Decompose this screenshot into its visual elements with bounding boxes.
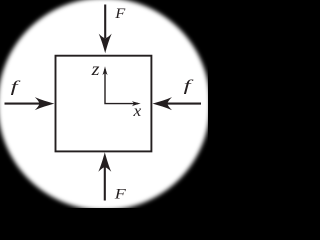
z axis arrowhead — [102, 66, 107, 75]
right force arrowhead — [152, 97, 172, 110]
square body — [56, 56, 152, 152]
svg-text:z: z — [91, 60, 100, 80]
left force arrow shaft — [5, 103, 43, 105]
top force arrow shaft — [104, 5, 106, 39]
svg-text:F: F — [114, 185, 127, 202]
x axis arrowhead — [132, 101, 141, 106]
svg-text:F: F — [114, 6, 126, 22]
bottom force arrowhead — [98, 152, 111, 172]
left force arrowhead — [35, 97, 55, 110]
top force arrowhead — [99, 34, 112, 54]
bottom force arrow shaft — [104, 167, 106, 201]
axes polyline (z up, x right) — [105, 69, 138, 104]
paper (white vignette) — [0, 0, 210, 210]
svg-text:x: x — [132, 102, 141, 120]
right force arrow shaft — [165, 103, 202, 105]
